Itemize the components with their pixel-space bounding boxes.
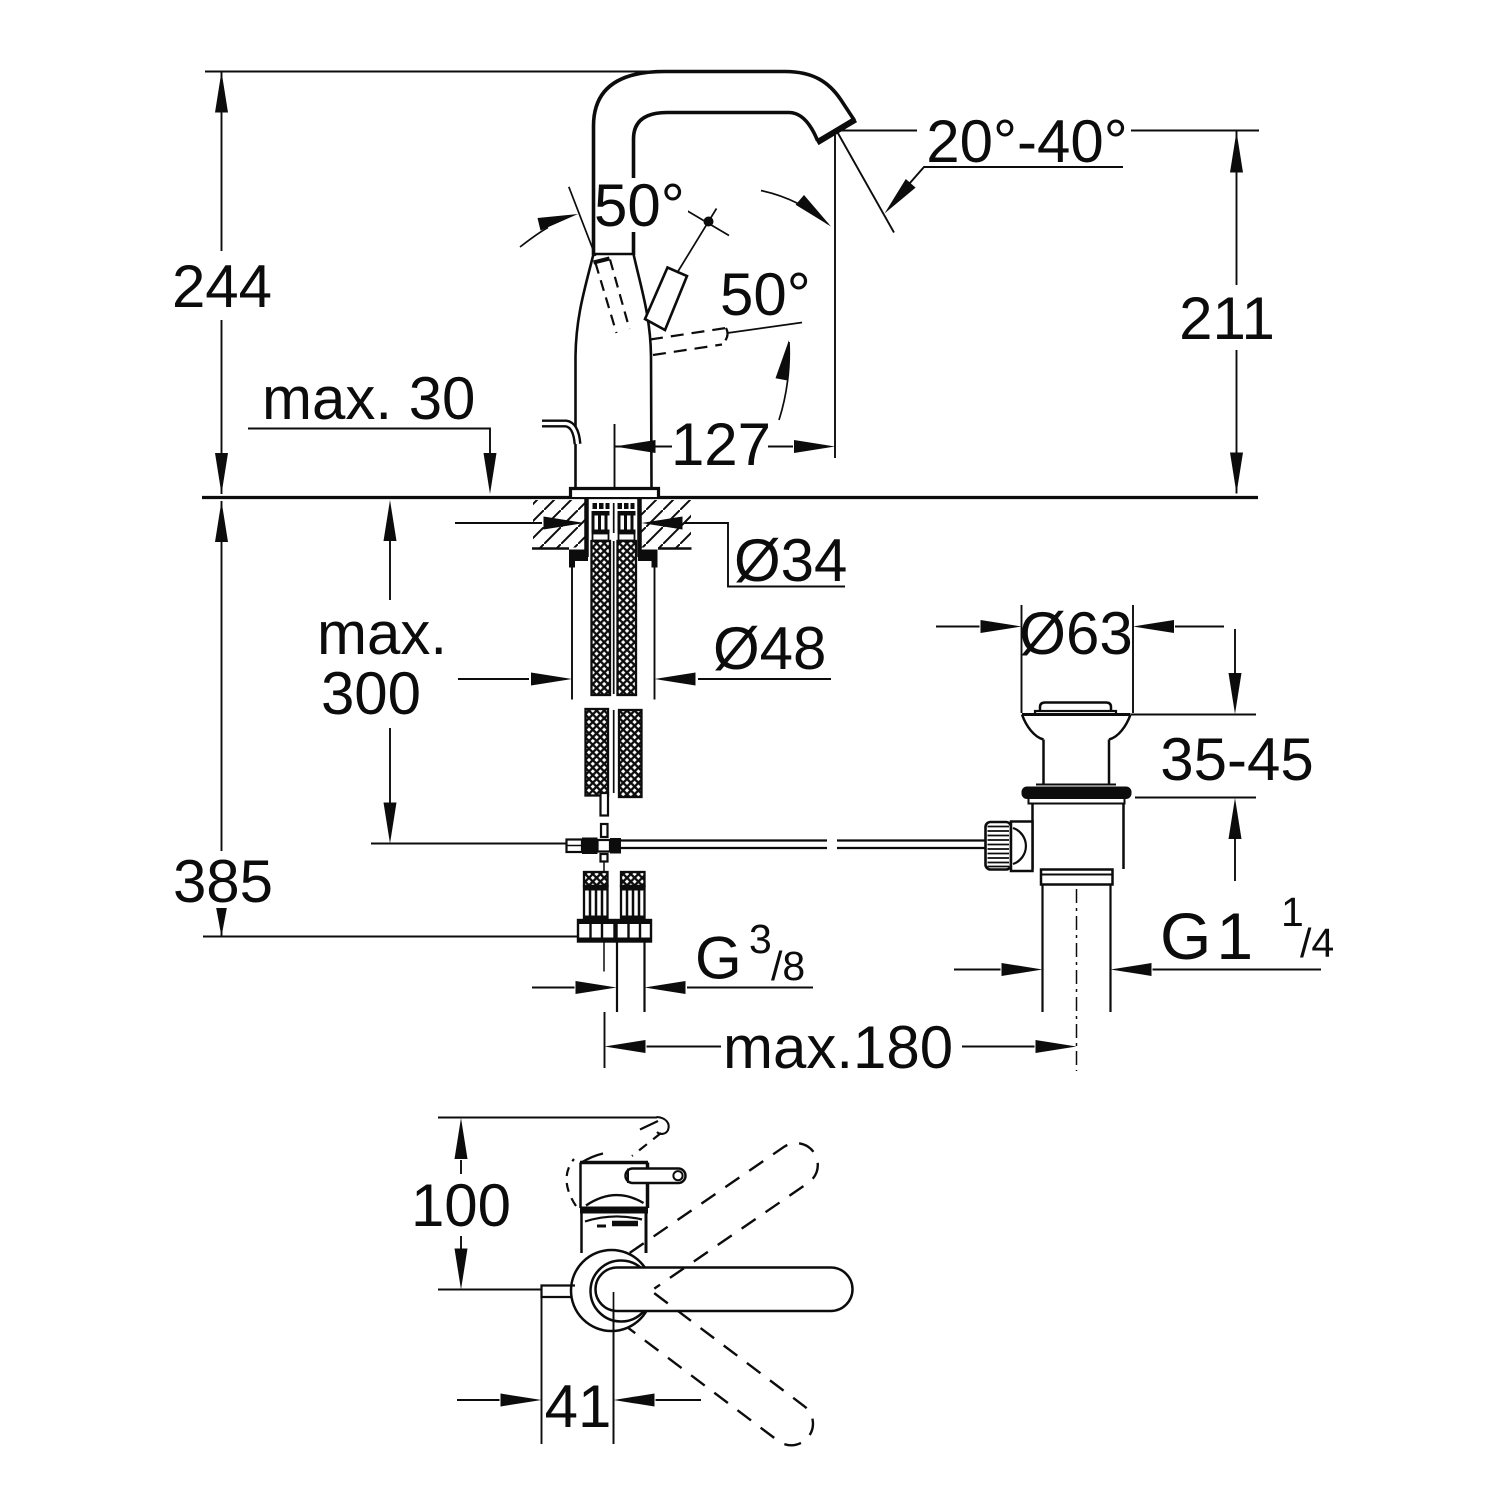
svg-text:50°: 50° [594,172,685,239]
rod coupler [567,840,583,853]
fitting body left [584,886,608,920]
arrowheads dia34 [544,517,585,530]
arrowheads 41 [501,1394,542,1407]
threaded shank walls [584,499,589,557]
dashed handle cap [594,259,610,263]
drain adjusting knob [986,822,1012,870]
extension line 100 bottom [438,1289,542,1291]
drain valve flange [1022,713,1131,716]
svg-text:300: 300 [321,660,421,727]
deck / counter line [202,496,1258,499]
arrowheads G1 1/4 [1002,963,1043,976]
plan body rect [580,1161,648,1165]
stud left [592,503,636,534]
arrowhead swivel arc right [796,195,831,227]
arrowheads 211 [1230,132,1243,173]
arrowheads 35-45 [1229,673,1242,714]
drain rubber seal [1022,787,1132,800]
svg-text:100: 100 [411,1172,511,1239]
svg-text:127: 127 [671,411,771,478]
svg-text:244: 244 [172,253,272,320]
flex hose left lower [586,709,609,796]
dimension line 244 [221,72,223,252]
arrowhead max.30 [484,453,497,494]
arrowheads 127 [615,440,656,453]
base flange [571,489,659,498]
svg-text:35-45: 35-45 [1160,726,1313,793]
body left edge [576,254,594,487]
plan hidden arc left [567,1159,576,1206]
deck bottom line [532,547,569,549]
svg-text:max. 30: max. 30 [262,365,475,432]
dimension line 385 [221,501,223,851]
G3/8 tail pipe right [616,942,618,1013]
arrowheads dia48 [531,673,572,686]
svg-text:211: 211 [1179,285,1275,352]
G3/8 tail centerline left [603,942,605,972]
arrowhead angle arc 50-2 [776,340,790,381]
svg-text:max.: max. [317,600,447,667]
drain body below seal [1029,799,1125,804]
arrowhead swivel arc left [538,214,579,231]
extension line 100 top [438,1117,657,1119]
plan handle solid [596,1268,853,1312]
stud collars [593,534,609,541]
pull rod tube [601,793,609,816]
dashed handle axis extension [569,187,596,256]
mounting nut left wing [569,550,588,562]
drain valve neck [1042,740,1045,785]
leader dia34 right with underline [684,523,845,587]
leaders dia63 [936,626,980,628]
arrowheads max.300 [384,500,397,541]
extension line 127 right / spout mouth vertical [834,135,836,458]
drain centerline [1076,889,1078,1071]
dimension line 211 [1236,132,1238,286]
arrowhead 20-40 leader [885,179,916,214]
svg-text:Ø63: Ø63 [1019,600,1132,667]
leaders 41 [457,1399,500,1401]
plan lever [626,1169,686,1184]
svg-text:/4: /4 [1300,920,1334,966]
leader dia34 left [455,522,542,524]
pop-up rod knob at rear [542,424,578,445]
angle arc 50-2 [779,342,789,420]
extension lines dia48 [571,562,573,700]
svg-text:Ø34: Ø34 [734,527,847,594]
fitting body right [621,886,645,920]
svg-text:G: G [695,925,742,992]
fitting nut right [617,920,652,942]
plan lever tab [542,1286,576,1298]
handle axis line [677,209,717,274]
pull rod upper [613,503,615,533]
spout mouth face [817,120,856,143]
aerator axis line [837,132,894,233]
leaders G3/8 [532,987,575,989]
plan mid section [580,1214,583,1254]
plan spout solid arc at corner [581,1154,604,1164]
dashed handle upper-left [596,260,630,334]
spout-body joint line [592,253,635,255]
extension line 41 right over handle [613,1292,615,1444]
extension lines 41 [541,1297,543,1444]
dashed handle horizontal [650,328,728,355]
deck hatching left [533,500,585,548]
dimension leaders dia48 [458,678,529,680]
arrowheads G3/8 [576,981,617,994]
plan cartridge dome [586,1195,644,1205]
svg-text:G1: G1 [1160,899,1258,973]
plan spout hidden edge B [640,1121,658,1130]
white mask behind 50deg label [599,178,688,232]
arrowheads max.180 [605,1040,646,1053]
dimension line 35-45 [1234,629,1236,674]
hose end braid cap right [621,872,645,886]
plan outer circle [571,1250,652,1331]
horizontal handle axis line [728,323,803,334]
plan inner circle [591,1261,652,1322]
horizontal pop-up rod [621,841,987,849]
extension lines dia63 [1021,605,1023,713]
plan view spout curl [657,1117,669,1134]
arrowheads 100 [455,1118,468,1159]
svg-text:385: 385 [173,848,273,915]
swivel arc right [761,191,828,225]
flex hose left upper [592,541,611,695]
dimension line max.300 [389,541,391,600]
leader 20-40 [895,167,1123,200]
pivot dot [704,217,714,227]
plan spout hidden edge A [632,1133,661,1156]
drain tailpipe [1041,885,1043,1013]
faucet spout inner profile [634,113,818,256]
lever handle solid [645,268,687,331]
mounting nut right wing [638,550,658,562]
faucet spout outer profile [594,72,855,256]
svg-text:41: 41 [545,1373,612,1440]
arrowheads dimension 385 [215,501,228,542]
deck hatching right [642,500,692,548]
swivel arc left [520,228,548,248]
drain knob stem [1011,822,1033,872]
dimension line max.30 [248,429,490,456]
arrowheads dimension 244 [215,72,228,113]
flex hose right lower [619,710,642,797]
svg-text:Ø48: Ø48 [713,615,826,682]
plan body black band [580,1207,648,1214]
drain bottom flange [1041,870,1113,885]
extension line 385 bottom [203,936,577,938]
svg-text:20°-40°: 20°-40° [926,108,1127,175]
dimension line 100 [460,1160,462,1174]
plan handle dashed upper [630,1135,827,1289]
dimension line 127 [615,446,673,448]
extension line max.300 bottom [371,843,568,845]
arrowheads dia63 [981,620,1022,633]
fitting nut left [578,920,615,942]
svg-text:3: 3 [749,916,772,962]
flex hose right upper [618,541,637,695]
plan handle dashed lower [628,1293,822,1454]
extension line 211 top [840,130,917,132]
svg-text:/8: /8 [771,943,805,989]
dimension line max.180 [647,1046,722,1048]
svg-text:max.180: max.180 [723,1014,953,1081]
extension line max.180 left [604,1012,606,1068]
extension lines 35-45 [1131,714,1256,716]
leaders G1 1/4 [954,969,1001,971]
pivot tick [688,211,730,236]
drain valve cap [1040,703,1111,712]
extension line 127 left [614,424,616,488]
extension line top (244) [205,71,658,73]
svg-text:50°: 50° [720,261,811,328]
hose end braid cap left [584,872,608,886]
body right edge [634,254,652,487]
